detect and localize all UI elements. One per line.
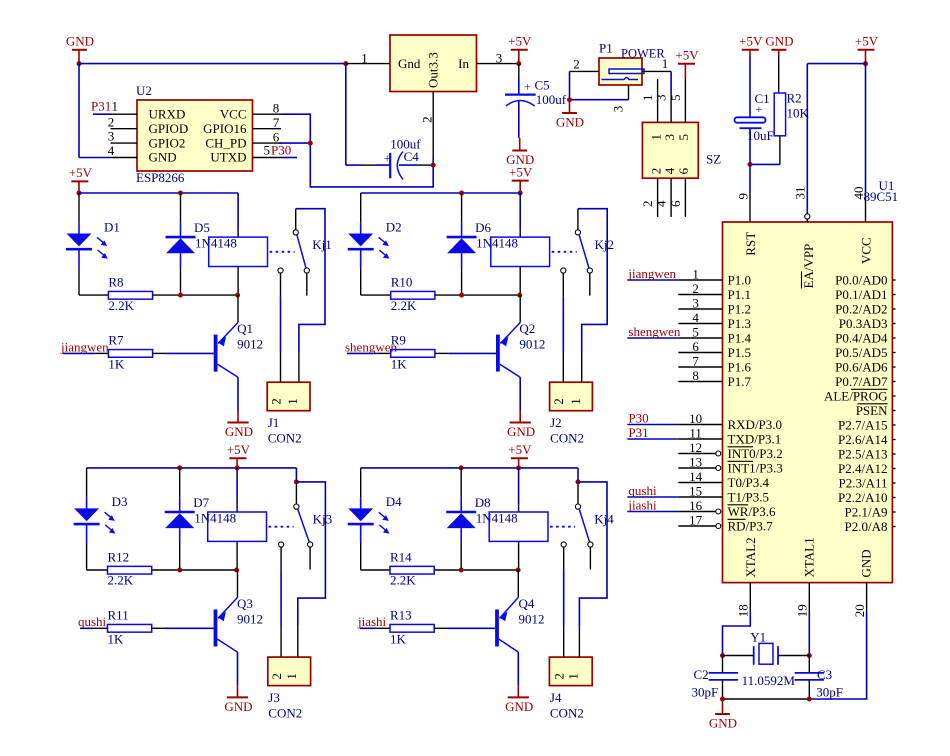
- net label P30: [627, 424, 678, 426]
- svg-text:P31: P31: [91, 99, 111, 114]
- svg-text:CON2: CON2: [550, 431, 584, 446]
- svg-text:XTAL1: XTAL1: [801, 537, 816, 577]
- junction: [567, 97, 572, 102]
- svg-text:R11: R11: [108, 608, 129, 623]
- svg-text:P2.7/A15: P2.7/A15: [838, 417, 887, 432]
- svg-text:qushi: qushi: [78, 614, 107, 629]
- wire +5V rail: [79, 192, 238, 194]
- svg-text:D4: D4: [386, 494, 402, 509]
- svg-text:VCC: VCC: [220, 106, 247, 121]
- svg-text:GPIO16: GPIO16: [203, 121, 247, 136]
- junction: [178, 293, 183, 298]
- pin 2 GPIOD: [111, 128, 138, 130]
- svg-text:CON2: CON2: [268, 706, 302, 721]
- relay switch Kj2: [575, 230, 580, 235]
- pin 1: [346, 63, 390, 65]
- svg-text:XTAL2: XTAL2: [743, 537, 758, 577]
- svg-text:+5V: +5V: [508, 442, 532, 457]
- svg-text:4: 4: [692, 310, 699, 325]
- svg-text:GPIO2: GPIO2: [149, 135, 186, 150]
- svg-text:shengwen: shengwen: [345, 339, 397, 354]
- svg-text:2: 2: [108, 114, 115, 129]
- svg-text:6: 6: [692, 339, 699, 354]
- pin 10 RXD/P3.0: [678, 424, 722, 426]
- svg-text:P1.4: P1.4: [728, 330, 752, 345]
- svg-text:Q4: Q4: [519, 596, 535, 611]
- capacitor C5 100uf: [518, 64, 520, 78]
- dotted actuation line: [270, 251, 295, 253]
- svg-text:URXD: URXD: [149, 106, 186, 121]
- transistor Q4 9012: [495, 610, 499, 647]
- svg-text:P31: P31: [628, 425, 648, 440]
- SZ bottom pin 6: [684, 178, 686, 217]
- svg-text:4: 4: [662, 167, 677, 174]
- junction: [77, 61, 82, 66]
- wire switch NO contact to J pin 2: [563, 547, 565, 570]
- svg-text:GND: GND: [765, 34, 793, 49]
- svg-text:P30: P30: [628, 411, 648, 426]
- svg-text:1: 1: [284, 673, 299, 680]
- svg-text:GND: GND: [66, 34, 94, 49]
- svg-text:EA/VPP: EA/VPP: [801, 244, 816, 289]
- resistor R12 2.2K: [87, 569, 108, 571]
- svg-text:ESP8266: ESP8266: [136, 170, 185, 185]
- pin 13 INT1/P3.3: [678, 467, 715, 469]
- svg-text:+5V: +5V: [739, 34, 763, 49]
- svg-text:13: 13: [689, 455, 702, 470]
- resistor R8 body: [108, 291, 152, 299]
- wire EA/VPP to +5V: [807, 63, 865, 65]
- svg-text:30pF: 30pF: [692, 685, 719, 700]
- svg-text:C4: C4: [404, 149, 420, 164]
- svg-text:D1: D1: [104, 219, 120, 234]
- svg-text:+5V: +5V: [509, 164, 533, 179]
- pin 16 WR/P3.6: [678, 511, 715, 513]
- svg-text:D3: D3: [112, 494, 128, 509]
- SZ bottom pin 4: [670, 178, 672, 217]
- pin 6 CH_PD: [253, 142, 282, 144]
- svg-text:GND: GND: [709, 715, 737, 730]
- svg-text:2: 2: [420, 116, 435, 123]
- wire R to diode/relay node: [152, 569, 237, 571]
- net label jiashi: [627, 511, 678, 513]
- svg-text:89C51: 89C51: [864, 189, 899, 204]
- svg-text:C2: C2: [694, 667, 709, 682]
- junction: [459, 568, 464, 573]
- LED D4: [360, 468, 362, 498]
- svg-text:1K: 1K: [391, 356, 408, 371]
- svg-text:GPIOD: GPIOD: [149, 121, 189, 136]
- svg-text:P0.7/AD7: P0.7/AD7: [835, 374, 888, 389]
- svg-text:3: 3: [108, 129, 115, 144]
- svg-text:10K: 10K: [787, 105, 810, 120]
- connector J3 CON2: [268, 657, 311, 686]
- junction: [343, 61, 348, 66]
- LED D1: [78, 193, 80, 223]
- junction: [748, 162, 753, 167]
- wire VCC pin 40: [865, 64, 867, 193]
- svg-text:31: 31: [793, 187, 808, 200]
- svg-text:P0.3AD3: P0.3AD3: [839, 316, 888, 331]
- wire switch NO contact to J pin 2: [280, 547, 282, 570]
- svg-text:qushi: qushi: [628, 483, 657, 498]
- svg-text:C5: C5: [535, 78, 550, 93]
- svg-text:7: 7: [692, 354, 699, 369]
- resistor R9 body: [391, 350, 435, 358]
- svg-text:1: 1: [692, 267, 699, 282]
- svg-text:CON2: CON2: [550, 706, 584, 721]
- junction: [431, 163, 436, 168]
- svg-text:9: 9: [735, 193, 750, 200]
- svg-text:P1.3: P1.3: [728, 316, 751, 331]
- pin 3 GPIO2: [111, 142, 138, 144]
- svg-text:10uF: 10uF: [747, 128, 774, 143]
- net label P31: [627, 438, 678, 440]
- pin 7 P1.6: [678, 366, 722, 368]
- LED D2: [360, 193, 362, 223]
- net label qushi: [627, 496, 678, 498]
- wire RST net / pin 9: [749, 164, 751, 193]
- resistor R14 body: [390, 566, 434, 574]
- svg-text:T0/P3.4: T0/P3.4: [728, 475, 770, 490]
- svg-text:+5V: +5V: [227, 442, 251, 457]
- pin 3 of P1: [628, 85, 630, 100]
- svg-text:jiashi: jiashi: [357, 614, 387, 629]
- ground under transistor: [237, 685, 239, 697]
- svg-text:2: 2: [692, 281, 699, 296]
- ground under transistor: [237, 411, 239, 423]
- svg-text:18: 18: [736, 604, 751, 617]
- resistor R14 2.2K: [361, 569, 390, 571]
- svg-text:In: In: [458, 56, 469, 71]
- svg-text:POWER: POWER: [621, 47, 665, 61]
- pin 5 UTXD: [253, 157, 282, 159]
- svg-text:P1.7: P1.7: [728, 374, 752, 389]
- svg-text:2: 2: [552, 673, 567, 680]
- svg-text:Kj3: Kj3: [313, 511, 333, 526]
- svg-text:CH_PD: CH_PD: [205, 135, 246, 150]
- svg-text:9012: 9012: [237, 612, 263, 627]
- svg-text:D7: D7: [193, 495, 209, 510]
- transistor Q3 9012: [214, 610, 218, 647]
- relay switch Kj1: [293, 230, 298, 235]
- pin 4 P1.3: [678, 323, 722, 325]
- resistor R10 body: [391, 291, 435, 299]
- svg-text:P2.1/A9: P2.1/A9: [845, 504, 888, 519]
- svg-text:+5V: +5V: [855, 34, 879, 49]
- ground under C5: [519, 138, 521, 151]
- svg-text:GND: GND: [507, 424, 535, 439]
- svg-text:R2: R2: [787, 91, 802, 106]
- svg-text:P0.5/AD5: P0.5/AD5: [835, 345, 887, 360]
- pin 20 GND: [866, 583, 868, 612]
- svg-text:P2.5/A13: P2.5/A13: [838, 446, 887, 461]
- svg-text:5: 5: [668, 95, 683, 102]
- svg-text:2.2K: 2.2K: [108, 298, 134, 313]
- svg-text:INT0/P3.2: INT0/P3.2: [728, 446, 783, 461]
- IC U1 89C51: [723, 222, 893, 583]
- svg-text:GND: GND: [149, 150, 177, 165]
- svg-text:Q3: Q3: [237, 596, 253, 611]
- overline ALE/PROG: [851, 388, 888, 390]
- net label jiangwen: [627, 279, 678, 281]
- regulator U3 (Gnd/Out3.3/In): [390, 35, 477, 92]
- connector J2 CON2: [550, 382, 593, 411]
- wire switch common branch to J pin 1: [578, 482, 607, 627]
- svg-text:3: 3: [662, 134, 677, 141]
- junction: [177, 568, 182, 573]
- junction: [720, 653, 725, 658]
- pin 7 GPIO16: [253, 128, 282, 130]
- svg-text:J1: J1: [268, 415, 280, 430]
- svg-text:3: 3: [692, 296, 699, 311]
- svg-text:INT1/P3.3: INT1/P3.3: [728, 460, 783, 475]
- connector J4 CON2: [549, 657, 592, 686]
- wire switch common branch to J pin 1: [296, 482, 325, 627]
- svg-text:RST: RST: [743, 232, 758, 256]
- relay coil: [519, 193, 521, 230]
- svg-text:2: 2: [551, 398, 566, 405]
- svg-text:Kj1: Kj1: [312, 237, 332, 252]
- pin 6 P1.5: [678, 352, 722, 354]
- svg-text:Q2: Q2: [519, 321, 535, 336]
- svg-text:P2.2/A10: P2.2/A10: [838, 490, 887, 505]
- svg-text:1K: 1K: [108, 631, 125, 646]
- junction: [308, 141, 313, 146]
- SZ bottom pin 2: [657, 178, 659, 217]
- pin 8 P1.7: [678, 381, 722, 383]
- svg-text:2.2K: 2.2K: [108, 573, 134, 588]
- svg-text:2: 2: [573, 57, 580, 72]
- pin 12 INT0/P3.2: [678, 453, 715, 455]
- svg-text:3: 3: [654, 95, 669, 102]
- svg-text:9012: 9012: [519, 612, 545, 627]
- relay switch Kj4: [575, 504, 580, 509]
- pin 11 TXD/P3.1: [678, 438, 722, 440]
- pin 2: [432, 92, 434, 159]
- resistor R2 10K: [774, 93, 785, 136]
- svg-text:15: 15: [689, 484, 702, 499]
- svg-text:9012: 9012: [237, 337, 263, 352]
- svg-text:1K: 1K: [390, 631, 407, 646]
- transistor Q2 9012: [496, 335, 500, 372]
- relay coil: [236, 468, 238, 505]
- svg-text:TXD/P3.1: TXD/P3.1: [728, 431, 782, 446]
- svg-text:Kj2: Kj2: [595, 237, 615, 252]
- resistor R7 body: [108, 350, 152, 358]
- LED D3: [86, 468, 88, 498]
- svg-text:RD/P3.7: RD/P3.7: [728, 518, 774, 533]
- relay switch Kj3: [294, 504, 299, 509]
- svg-text:D8: D8: [475, 495, 491, 510]
- wire crystal ground rail: [723, 698, 810, 700]
- connector J1 CON2: [267, 382, 310, 411]
- svg-text:6: 6: [676, 167, 691, 174]
- svg-text:1K: 1K: [108, 356, 125, 371]
- svg-text:R14: R14: [390, 550, 412, 565]
- svg-text:R7: R7: [108, 333, 124, 348]
- svg-text:5: 5: [676, 134, 691, 141]
- capacitor C2 30pF: [722, 656, 724, 673]
- svg-text:Y1: Y1: [750, 630, 766, 645]
- svg-text:12: 12: [689, 440, 702, 455]
- svg-text:1: 1: [361, 51, 368, 66]
- svg-text:P2.0/A8: P2.0/A8: [845, 519, 888, 534]
- svg-text:19: 19: [795, 604, 810, 617]
- svg-text:11: 11: [689, 426, 702, 441]
- svg-text:+5V: +5V: [675, 48, 699, 63]
- svg-text:Kj4: Kj4: [594, 511, 614, 526]
- junction: [863, 61, 868, 66]
- pin 3: [477, 63, 519, 65]
- svg-text:P2.3/A11: P2.3/A11: [839, 475, 888, 490]
- svg-text:SZ: SZ: [706, 152, 721, 167]
- net label shengwen: [627, 337, 678, 339]
- pin 15 T1/P3.5: [678, 496, 722, 498]
- overline PSEN: [858, 403, 888, 405]
- pin 2 of P1: [570, 70, 600, 72]
- svg-text:shengwen: shengwen: [628, 324, 680, 339]
- svg-text:3: 3: [610, 106, 625, 113]
- svg-text:ALE/PROG: ALE/PROG: [824, 388, 888, 403]
- svg-text:30pF: 30pF: [816, 685, 843, 700]
- svg-text:UTXD: UTXD: [210, 150, 246, 165]
- svg-text:jiashi: jiashi: [627, 498, 657, 513]
- svg-text:R10: R10: [391, 275, 413, 290]
- svg-text:P0.0/AD0: P0.0/AD0: [835, 272, 887, 287]
- capacitor C4 100uf: [345, 64, 347, 166]
- resistor R13 body: [390, 624, 434, 632]
- svg-text:P1.1: P1.1: [728, 287, 751, 302]
- svg-text:VCC: VCC: [859, 237, 874, 264]
- svg-text:6: 6: [668, 200, 683, 207]
- pin 18 XTAL2: [749, 583, 751, 612]
- relay coil: [518, 468, 520, 505]
- svg-text:J2: J2: [550, 415, 562, 430]
- svg-text:P0.2/AD2: P0.2/AD2: [835, 301, 887, 316]
- resistor R8 2.2K: [79, 294, 108, 296]
- svg-text:7: 7: [273, 115, 280, 130]
- svg-text:P1.2: P1.2: [728, 301, 751, 316]
- svg-text:9012: 9012: [519, 337, 545, 352]
- diode D8 1N4148: [460, 468, 462, 498]
- svg-text:R13: R13: [390, 608, 412, 623]
- ground under transistor: [517, 685, 519, 697]
- junction: [459, 293, 464, 298]
- ground at P1: [569, 101, 571, 114]
- junction +5V feed: [518, 191, 523, 196]
- junction at switch feed: [294, 479, 299, 484]
- svg-text:+: +: [756, 102, 763, 116]
- svg-text:Out3.3: Out3.3: [426, 52, 441, 88]
- wire R to diode/relay node: [153, 294, 239, 296]
- SZ top pin 3: [670, 94, 672, 122]
- svg-text:100uf: 100uf: [536, 92, 567, 107]
- svg-text:R12: R12: [108, 550, 130, 565]
- wire: [78, 64, 80, 158]
- svg-text:1: 1: [566, 673, 581, 680]
- svg-text:5: 5: [264, 143, 271, 158]
- svg-text:1: 1: [112, 99, 119, 114]
- svg-text:PSEN: PSEN: [856, 403, 888, 418]
- ground at crystal: [722, 702, 724, 715]
- pin 19 XTAL1: [808, 583, 810, 612]
- wire switch common to J pin 1: [296, 209, 325, 352]
- pin 1 URXD: [111, 113, 138, 115]
- pin 3 P1.2: [678, 308, 722, 310]
- capacitor C3 30pF: [808, 656, 810, 673]
- svg-text:4: 4: [654, 200, 669, 207]
- svg-text:16: 16: [689, 498, 703, 513]
- svg-text:WR/P3.6: WR/P3.6: [728, 504, 777, 519]
- svg-text:8: 8: [273, 101, 280, 116]
- ground under transistor: [519, 411, 521, 423]
- wire switch common to J pin 1: [578, 209, 607, 352]
- wire switch NO contact to J pin 2: [562, 273, 564, 296]
- svg-text:P30: P30: [271, 143, 291, 158]
- pin 14 T0/P3.4: [678, 482, 722, 484]
- svg-text:GND: GND: [556, 114, 584, 129]
- svg-text:C3: C3: [817, 667, 832, 682]
- IC U2 ESP8266: [137, 100, 253, 171]
- svg-text:U2: U2: [136, 83, 152, 98]
- svg-text:2: 2: [269, 673, 284, 680]
- pin 8 VCC: [253, 113, 282, 115]
- svg-text:+5V: +5V: [508, 34, 532, 49]
- svg-text:CON2: CON2: [268, 431, 302, 446]
- wire R to diode/relay node: [434, 569, 518, 571]
- svg-text:+5V: +5V: [69, 165, 93, 180]
- junction: [720, 697, 725, 702]
- relay coil: [237, 193, 239, 230]
- pin 17 RD/P3.7: [678, 525, 715, 527]
- connector P1 POWER: [599, 58, 642, 85]
- SZ top pin 1: [657, 79, 659, 123]
- svg-text:P1.0: P1.0: [728, 272, 751, 287]
- svg-text:10: 10: [689, 411, 702, 426]
- wire +5V rail: [361, 192, 521, 194]
- dotted actuation line: [550, 526, 575, 528]
- resistor R11 body: [108, 624, 152, 632]
- svg-text:GND: GND: [224, 699, 252, 714]
- pin 2 P1.1: [678, 294, 722, 296]
- junction: [516, 61, 521, 66]
- diode D5 1N4148: [180, 193, 182, 223]
- junction at switch feed: [576, 479, 581, 484]
- svg-text:4: 4: [108, 143, 115, 158]
- svg-text:P0.4/AD4: P0.4/AD4: [835, 330, 888, 345]
- pin 5 P1.4: [678, 337, 722, 339]
- resistor R12 body: [108, 566, 152, 574]
- dotted actuation line: [269, 526, 294, 528]
- wire: [79, 63, 346, 65]
- svg-text:14: 14: [689, 469, 703, 484]
- svg-text:2.2K: 2.2K: [390, 573, 416, 588]
- svg-text:1: 1: [662, 56, 669, 71]
- pin 31 EA/VPP inversion bubble: [805, 214, 810, 219]
- svg-text:P1: P1: [599, 41, 613, 56]
- svg-text:+: +: [524, 80, 531, 94]
- SZ top pin 5: [684, 94, 686, 122]
- svg-text:J3: J3: [268, 690, 280, 705]
- svg-text:Gnd: Gnd: [398, 56, 421, 71]
- svg-text:P2.4/A12: P2.4/A12: [838, 461, 887, 476]
- svg-text:GND: GND: [225, 424, 253, 439]
- svg-text:P0.1/AD1: P0.1/AD1: [835, 287, 887, 302]
- svg-text:P1.6: P1.6: [728, 359, 752, 374]
- svg-text:2.2K: 2.2K: [391, 298, 417, 313]
- svg-text:5: 5: [692, 325, 699, 340]
